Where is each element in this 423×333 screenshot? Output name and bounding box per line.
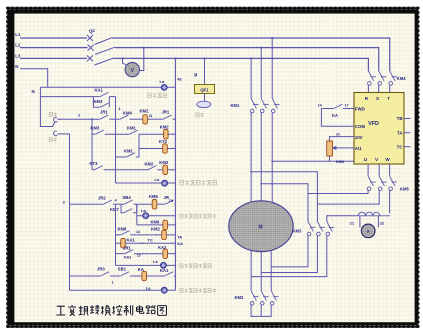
svg-text:KM3: KM3 (94, 99, 104, 104)
stair wire S2 (251, 172, 317, 222)
svg-text:La: La (155, 177, 160, 182)
svg-text:KM2: KM2 (160, 125, 170, 130)
wire KM3 out3 (251, 236, 327, 277)
wire KM3 out (108, 97, 110, 108)
junction tap B (260, 47, 262, 49)
contact KM3 rung2 (95, 130, 104, 134)
wire rung2 c (139, 133, 164, 135)
wire rung KM6 b (168, 224, 176, 226)
contact KM1 rung2 (129, 130, 138, 134)
contact KM1 pole2 (260, 99, 268, 113)
contact KM3 pole2 (317, 222, 325, 236)
wire COM link (321, 109, 354, 127)
wire 2 row (57, 118, 99, 120)
svg-text:TC: TC (397, 144, 404, 149)
wire rung KM8 c (166, 234, 175, 236)
wire CT to left (327, 216, 358, 222)
contact SB4 rungL1 (124, 200, 133, 204)
breaker QF blade 1 (95, 38, 113, 45)
wire star bar (251, 305, 271, 317)
svg-text:TA: TA (177, 235, 182, 239)
vertical rail 139 (138, 134, 140, 157)
svg-text:KA1: KA1 (95, 88, 104, 93)
svg-text:10V: 10V (355, 135, 363, 140)
wire rungL1 e (174, 203, 177, 205)
wire bottom rung a (70, 275, 101, 277)
contact JR1 row2 (100, 115, 109, 119)
svg-text:FWD: FWD (355, 107, 365, 112)
junction QF1 tap (204, 58, 206, 60)
wire rungL1 a (70, 203, 104, 205)
wire rungL1 c (134, 203, 153, 205)
svg-text:21: 21 (350, 220, 355, 225)
wire V out (317, 190, 379, 204)
contact KM2 rung5 (148, 166, 157, 170)
wire V stub (378, 164, 380, 176)
contact JR rungL1 (165, 200, 174, 204)
svg-text:22: 22 (380, 220, 385, 225)
wire W out (389, 190, 391, 213)
contact KT3 rung5 (94, 166, 103, 170)
svg-text:KM8: KM8 (118, 226, 128, 231)
svg-text:KA: KA (332, 113, 338, 118)
junction GND motor (271, 161, 273, 163)
wire U stub (367, 164, 369, 176)
wire rung3 b (167, 148, 175, 150)
contact KM3 pole3 (326, 222, 334, 236)
svg-text:TA: TA (397, 130, 403, 135)
note trip signal (148, 93, 167, 97)
selector feed (40, 87, 52, 126)
svg-text:S: S (376, 96, 379, 101)
selector SA position 2 (54, 131, 58, 136)
wire rung1 d (173, 118, 176, 120)
contact KM1 pole1 (250, 99, 258, 113)
contact JR3 bottom (101, 272, 110, 276)
coil KM2 lower (162, 230, 167, 239)
wire voltmeter lead left (123, 58, 127, 64)
left rail lower (69, 134, 71, 290)
svg-text:KM1: KM1 (231, 103, 241, 108)
contact KM2 pole2 (260, 291, 268, 305)
svg-text:μ: μ (194, 72, 197, 78)
wire rung KA2 a (116, 253, 125, 255)
wire KA1 out (109, 96, 115, 98)
wire 10V (330, 137, 355, 141)
wire L2 right (115, 48, 379, 71)
svg-text:N: N (15, 64, 18, 69)
svg-text:SB4: SB4 (123, 195, 132, 200)
wire FWD b (343, 108, 354, 110)
wire KM7 out (133, 204, 137, 213)
wire rung4 b (136, 156, 139, 158)
wire motor bottom 1 (250, 250, 252, 290)
svg-text:KA: KA (138, 267, 144, 272)
wire rung5 a (92, 169, 94, 171)
wire U out (308, 190, 368, 193)
junction tap C (250, 58, 252, 60)
contact KM2 pole1 (250, 291, 258, 305)
wire L1 right (112, 38, 390, 71)
VFD U1 box (354, 93, 404, 165)
potentiometer wiper (333, 146, 337, 149)
svg-text:QF: QF (89, 29, 95, 34)
wire motor feed 1 (250, 113, 252, 204)
junction tap A (271, 37, 273, 39)
svg-text:La: La (160, 79, 165, 84)
stub TB (404, 118, 411, 120)
coil KM3 rung5 (163, 165, 168, 174)
svg-text:2: 2 (78, 113, 80, 117)
note under arrester (196, 113, 204, 117)
contact KM7 parallel (124, 209, 133, 213)
svg-text:1: 1 (118, 107, 120, 111)
svg-text:3: 3 (63, 200, 65, 204)
svg-text:JR1: JR1 (123, 246, 131, 251)
svg-text:KM3: KM3 (159, 160, 169, 165)
svg-text:1: 1 (112, 281, 114, 285)
wire bottom rung e (174, 275, 176, 277)
wire KM1 phase B (260, 48, 262, 99)
junction v92 (91, 118, 93, 120)
voltmeter PV (125, 62, 139, 76)
coil KA2 (163, 249, 168, 258)
wire KA1 row (40, 96, 99, 98)
wire S drop (378, 85, 380, 93)
contact KM4 pole1 (368, 71, 376, 85)
note mains run lamp (180, 180, 217, 185)
vertical rail 92 (91, 119, 93, 170)
svg-text:JR3: JR3 (97, 267, 105, 272)
wire R drop (367, 85, 369, 93)
svg-text:N: N (32, 89, 35, 94)
svg-text:M: M (258, 225, 262, 231)
wire W stub (389, 164, 391, 176)
breaker QF pole 3 (87, 55, 93, 61)
breaker QF blade 2 (95, 47, 115, 54)
potentiometer RP (327, 141, 333, 156)
svg-text:KM2: KM2 (235, 295, 245, 300)
coil KT2 rung3 (163, 144, 168, 153)
wire L1 left (20, 37, 87, 39)
svg-text:KM5: KM5 (400, 187, 410, 192)
wire lamp rung vfd close (137, 215, 176, 217)
wire rung KA1 b (125, 242, 175, 244)
svg-text:KA: KA (177, 242, 183, 246)
ammeter PA (361, 224, 375, 238)
stair wire S3 (261, 184, 308, 222)
selector pos1 link (53, 122, 55, 127)
selector SA position 1 (54, 117, 58, 122)
svg-text:14: 14 (318, 103, 322, 107)
wire motor bottom 2 (260, 252, 262, 291)
wire pot gnd (330, 156, 355, 161)
wire motor feed 2 (260, 113, 262, 202)
wire rung5 b (104, 169, 148, 171)
lamp La trip signal (161, 84, 167, 90)
wire voltmeter lead right (139, 48, 144, 71)
wire rung KA2 b (134, 253, 163, 255)
contact KM5 pole1 (367, 176, 375, 190)
wire rungL1 b (113, 203, 124, 205)
motor M (229, 201, 293, 252)
note position 1 (49, 112, 57, 116)
right rail 43 (174, 58, 176, 290)
svg-text:SB1: SB1 (118, 267, 127, 272)
wire rung1 a (109, 118, 120, 120)
breaker QF blade 3 (95, 58, 114, 65)
svg-text:10: 10 (336, 133, 340, 137)
wire rung KA1 a (116, 242, 121, 244)
coil KM5 rungL1 (152, 200, 157, 209)
contact KM1 rung4 (127, 153, 136, 157)
svg-text:KM2: KM2 (145, 161, 155, 166)
wire rung KM8 a (116, 234, 121, 236)
contact SB1 bottom (121, 272, 130, 276)
wire L3 left (20, 57, 87, 59)
svg-text:JR1: JR1 (162, 109, 170, 114)
wire rung2 b (105, 133, 129, 135)
wire KM3 out2 (261, 236, 317, 273)
junction S3 (260, 183, 262, 185)
coil KA (142, 271, 147, 280)
parallel branch KM3 (93, 97, 99, 108)
wire N rail to lamp (40, 86, 175, 88)
contact KM4 pole3 (389, 71, 397, 85)
contact JR1 rung KA2 (125, 250, 134, 254)
contact KM3 pole1 (307, 222, 315, 236)
stub TA (404, 132, 411, 134)
svg-text:GND: GND (336, 160, 345, 164)
coil KM2 rung1 (143, 115, 148, 124)
svg-text:La: La (153, 259, 158, 264)
svg-text:TB: TB (397, 116, 403, 121)
contact KM5 pole3 (389, 176, 397, 190)
wire rung2 d (168, 133, 175, 135)
coil KM2 rung2 (164, 130, 169, 139)
ammeter lead 22 (377, 216, 379, 228)
wire AI1 (337, 147, 354, 149)
svg-text:La: La (141, 208, 146, 213)
vertical node4 (115, 204, 117, 265)
wire star mid stub (260, 305, 262, 317)
lamp La vfd run (160, 262, 166, 268)
svg-text:KT2: KT2 (159, 139, 168, 144)
contact KM2 pole3 (270, 291, 278, 305)
svg-text:KM2: KM2 (140, 109, 150, 114)
svg-text:KM3: KM3 (293, 228, 303, 233)
note vfd run lamp (180, 264, 211, 268)
junction voltmeter L3 (122, 58, 124, 60)
wire rung6 lamp (116, 182, 176, 184)
arrester QF1 box (195, 85, 215, 94)
coil KM6 (163, 220, 168, 229)
parallel branch KM7 (121, 204, 124, 213)
lamp La mains run (162, 180, 168, 186)
wire lamp rung vfd run (116, 264, 176, 266)
wire rung3 (139, 148, 163, 150)
note vfd close signal (180, 214, 216, 218)
contact KM1 pole3 (271, 99, 279, 113)
svg-text:L2: L2 (15, 43, 21, 48)
wire bottom rung d (147, 275, 165, 277)
wire motor bottom 3 (270, 250, 272, 290)
svg-text:KM6: KM6 (151, 219, 161, 224)
wire rung KA2 c (168, 253, 176, 255)
svg-text:AI1: AI1 (355, 146, 362, 151)
svg-text:KM2: KM2 (151, 227, 161, 232)
svg-text:JR2: JR2 (98, 195, 106, 200)
title text (56, 305, 166, 316)
svg-text:KA2: KA2 (158, 245, 167, 250)
breaker QF pole 1 (87, 35, 93, 41)
wire T drop (389, 85, 391, 93)
svg-text:KM1: KM1 (124, 148, 134, 153)
wire L3 right (114, 58, 369, 71)
svg-text:KA1: KA1 (127, 237, 136, 242)
contact KM4 rung1 (120, 115, 129, 119)
wire rung KM8 b (130, 234, 162, 236)
arrester cap (197, 101, 211, 107)
junction rail L3 (175, 58, 177, 60)
wire bottom rung b (110, 275, 120, 277)
wire rung5 c (157, 169, 163, 171)
wire lamp rung mains close (70, 289, 176, 291)
contact KA1 (100, 92, 109, 96)
svg-text:7A: 7A (169, 199, 174, 203)
note mains close signal (180, 289, 216, 293)
wire rung2 a (92, 133, 95, 135)
wire rung4 a (116, 156, 127, 158)
contact KM5 pole2 (378, 176, 386, 190)
wire rung1 c (147, 118, 163, 120)
stub TC (404, 146, 411, 148)
wire L2 left (20, 47, 88, 49)
contact JR1 rung1 (163, 115, 172, 119)
svg-text:JR1: JR1 (100, 109, 108, 114)
svg-text:KM5: KM5 (149, 194, 159, 199)
wire N entry (20, 69, 48, 88)
wire KM1 phase C (250, 58, 252, 98)
wire bottom rung c (130, 275, 142, 277)
wire rung1 b (129, 118, 142, 120)
contact KM4 pole2 (378, 71, 386, 85)
wire GND to motor (272, 160, 329, 162)
svg-text:KM4: KM4 (397, 76, 407, 81)
contact JR2 rungL1 (103, 200, 112, 204)
wire to arrester QF1 (204, 58, 206, 84)
svg-text:T: T (387, 96, 390, 101)
svg-text:La: La (146, 285, 151, 290)
svg-text:KM7: KM7 (110, 207, 120, 212)
contact KM3 parallel (100, 103, 109, 107)
wire rung KM6 (137, 224, 163, 226)
wire rungL1 d (157, 203, 165, 205)
breaker QF pole 2 (88, 45, 94, 51)
vertical node1 (115, 97, 117, 183)
note position 2 (49, 138, 57, 142)
lamp La mains close (161, 287, 167, 293)
junction S2 (250, 171, 252, 173)
junction voltmeter L2 (143, 47, 145, 49)
svg-text:VFD: VFD (368, 121, 379, 127)
junction TC (141, 243, 142, 244)
wire KM3 out1 (271, 236, 308, 267)
svg-text:L1: L1 (15, 32, 21, 37)
coil KA1 heater (121, 239, 126, 248)
contact KA1 bottom (165, 272, 174, 276)
svg-text:W: W (385, 157, 390, 162)
wire QF1 to cap (204, 94, 206, 102)
current transformer CT (358, 212, 390, 216)
svg-text:TC: TC (148, 239, 153, 243)
svg-text:COM: COM (355, 124, 366, 129)
svg-text:KM3: KM3 (91, 125, 101, 130)
svg-text:L3: L3 (15, 53, 21, 58)
svg-text:KT3: KT3 (90, 161, 99, 166)
svg-text:KA1: KA1 (160, 268, 169, 273)
svg-text:21: 21 (149, 114, 153, 118)
svg-text:KM1: KM1 (127, 126, 137, 131)
contact KA fwd (334, 104, 343, 108)
wire KM1 phase A (271, 38, 273, 99)
vertical rail 136 (136, 204, 138, 225)
wire selector pos2 out (57, 133, 69, 135)
svg-text:43: 43 (177, 77, 182, 82)
svg-text:14: 14 (136, 230, 140, 234)
wire rung5 d (168, 169, 176, 171)
svg-text:KM4: KM4 (123, 111, 133, 116)
wire motor feed 3 (271, 113, 273, 204)
wire FWD a (321, 108, 333, 110)
svg-text:15: 15 (137, 254, 141, 258)
contact KM8 (121, 231, 130, 235)
ammeter lead 21 (359, 216, 361, 228)
lamp La vfd close (143, 213, 149, 219)
svg-text:17: 17 (345, 104, 349, 108)
svg-text:KA2: KA2 (124, 256, 131, 260)
svg-text:QF1: QF1 (200, 88, 209, 93)
